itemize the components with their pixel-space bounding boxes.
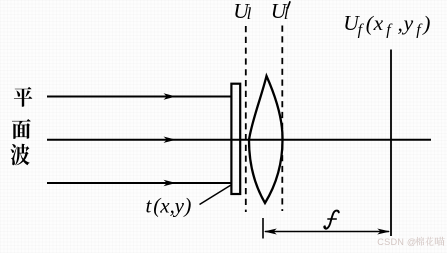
svg-text:f: f — [358, 22, 365, 39]
label Uf(xf,yf) (focal-plane field) — [343, 11, 430, 39]
label: plane-wave char 平 — [14, 87, 32, 107]
svg-text:y: y — [173, 194, 185, 218]
svg-text:CSDN @: CSDN @ — [377, 237, 416, 247]
svg-text:f: f — [386, 22, 393, 39]
lens L (biconvex) — [249, 76, 283, 203]
label f (focal length) — [324, 210, 339, 229]
svg-text:t: t — [146, 194, 153, 218]
svg-text:): ) — [421, 12, 430, 36]
f dimension double-headed arrow — [264, 229, 390, 235]
svg-text:,: , — [398, 12, 403, 36]
label: plane-wave char 波 — [11, 144, 30, 165]
leader line from t(x,y) label to plate — [200, 185, 231, 204]
label Ul' (field behind lens) — [271, 0, 290, 23]
label t(x,y) — [146, 194, 192, 218]
label: plane-wave char 面 — [12, 119, 31, 139]
svg-text:): ) — [183, 194, 191, 218]
incident ray 2 / optical axis with arrowhead — [47, 137, 431, 143]
incident ray 1 (top) with arrowhead — [47, 93, 231, 99]
watermark CSDN @棉花喵 — [377, 237, 445, 247]
dashed plane Ul' (behind lens) — [281, 26, 283, 212]
transparency plate t(x,y) rectangle — [231, 84, 240, 194]
f dimension tick at lens center plane — [262, 218, 264, 239]
svg-text:x: x — [159, 194, 170, 218]
svg-text:y: y — [402, 11, 414, 35]
svg-text:f: f — [416, 22, 423, 39]
dashed plane Ul (input plane) — [245, 26, 247, 212]
incident ray 3 (bottom) with arrowhead — [47, 180, 231, 186]
svg-text:x: x — [373, 11, 384, 35]
svg-text:l: l — [247, 4, 252, 23]
label Ul (input field) — [233, 0, 251, 23]
focal plane Uf vertical line — [390, 50, 392, 237]
